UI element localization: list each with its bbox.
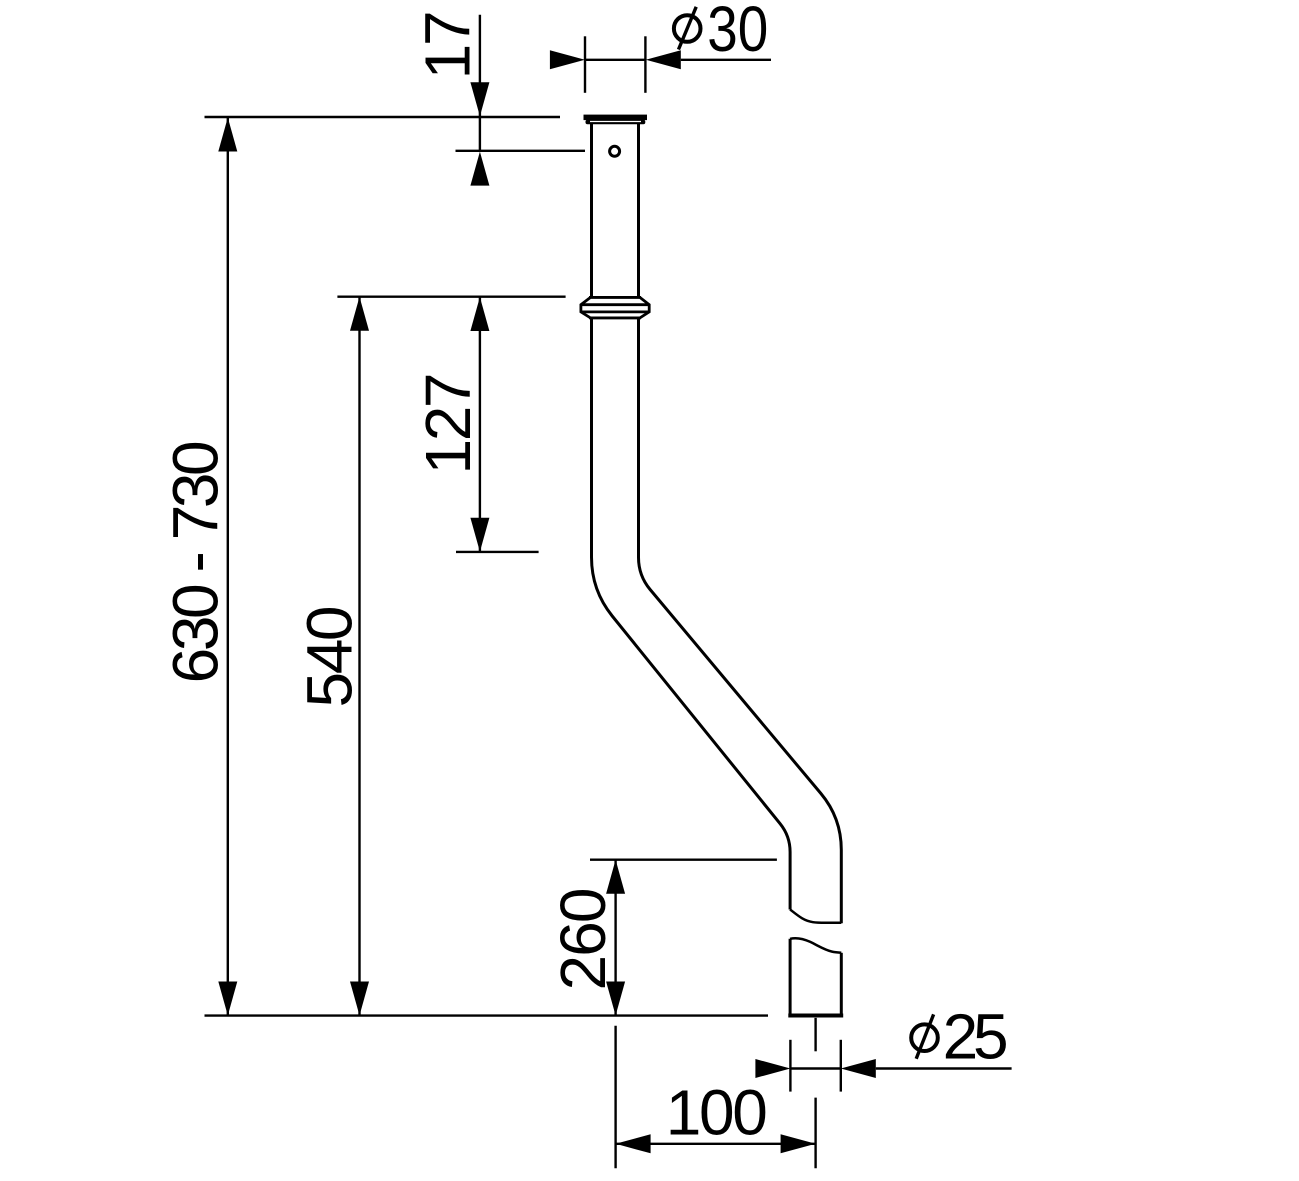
dimension o30 label	[674, 0, 768, 65]
dimension 127 label	[412, 373, 484, 475]
svg-text:127: 127	[412, 373, 484, 475]
dimension 17 lower arrow	[470, 152, 489, 186]
pipe lower piece right edge	[840, 953, 843, 1014]
dimension o25 left arrow	[755, 1059, 790, 1078]
extension line: hub top (y=296.7)	[337, 296, 565, 298]
dimension 100 left extension line	[614, 1026, 616, 1169]
dimension 260 label	[547, 888, 619, 991]
dimension 260 lower arrow	[606, 982, 625, 1016]
dimension 540 lower arrow	[350, 982, 369, 1016]
pipe lower piece left edge	[789, 939, 792, 1014]
outlet centre line	[814, 1018, 816, 1051]
pipe outlet bottom edge	[788, 1014, 843, 1018]
flush pipe upper tube right edge	[639, 123, 842, 923]
dimension 100 left arrow	[616, 1134, 651, 1153]
dimension 100 label	[666, 1077, 768, 1149]
pipe break lower cut line	[790, 938, 841, 953]
overflow hole in tube	[610, 146, 620, 156]
dimension o30 left arrow	[550, 50, 585, 69]
dimension o30 extension line right	[644, 36, 646, 93]
dimension o30 extension line left	[584, 36, 586, 93]
dimension 540 label	[294, 606, 366, 708]
dimension 127 line	[479, 297, 481, 552]
dimension 260 line	[614, 860, 616, 1016]
dimension 540 upper arrow	[350, 297, 369, 331]
flush pipe upper tube left edge	[592, 123, 791, 910]
dimension 630-730 lower arrow	[218, 982, 237, 1016]
pipe top collar	[584, 115, 648, 125]
svg-text:30: 30	[707, 0, 768, 65]
dimension 17 label	[411, 10, 483, 79]
svg-text:100: 100	[666, 1077, 768, 1149]
bottom reference line (y=1015.6)	[205, 1014, 769, 1016]
dimension 630-730 label	[160, 440, 232, 683]
dimension 127 bottom extension line	[456, 551, 539, 553]
dimension 100 right arrow	[781, 1134, 816, 1153]
dimension 127 upper arrow	[470, 297, 489, 331]
svg-text:630 - 730: 630 - 730	[160, 440, 232, 683]
dimension 630-730 line	[227, 118, 229, 1016]
svg-text:260: 260	[547, 888, 619, 991]
dimension 540 line	[358, 297, 360, 1016]
svg-text:17: 17	[411, 10, 483, 79]
dimension 100 right extension line	[814, 1098, 816, 1169]
pipe hub coupling	[581, 297, 649, 318]
dimension o25 line	[790, 1067, 1011, 1069]
dimension o25 extension line left	[789, 1040, 791, 1092]
dimension o25 right arrow	[841, 1059, 876, 1078]
extension line: top of pipe (y=117)	[205, 116, 561, 118]
dimension 17 upper arrow	[470, 82, 489, 116]
dimension 260 upper arrow	[606, 860, 625, 894]
dimension o25 label	[911, 1001, 1008, 1073]
dimension 260 extension line	[590, 859, 777, 861]
extension line: hole centre (y=150.8)	[456, 150, 586, 152]
dimension 630-730 upper arrow	[218, 118, 237, 152]
pipe break upper cut line	[790, 910, 841, 923]
dimension 17 line	[479, 15, 481, 151]
svg-text:25: 25	[943, 1001, 1009, 1073]
dimension o30 right arrow	[646, 50, 681, 69]
dimension 100 line	[616, 1143, 816, 1145]
svg-text:540: 540	[294, 606, 366, 708]
dimension 127 lower arrow	[470, 518, 489, 552]
dimension o30 line	[585, 59, 771, 61]
dimension o25 extension line right	[840, 1040, 842, 1092]
